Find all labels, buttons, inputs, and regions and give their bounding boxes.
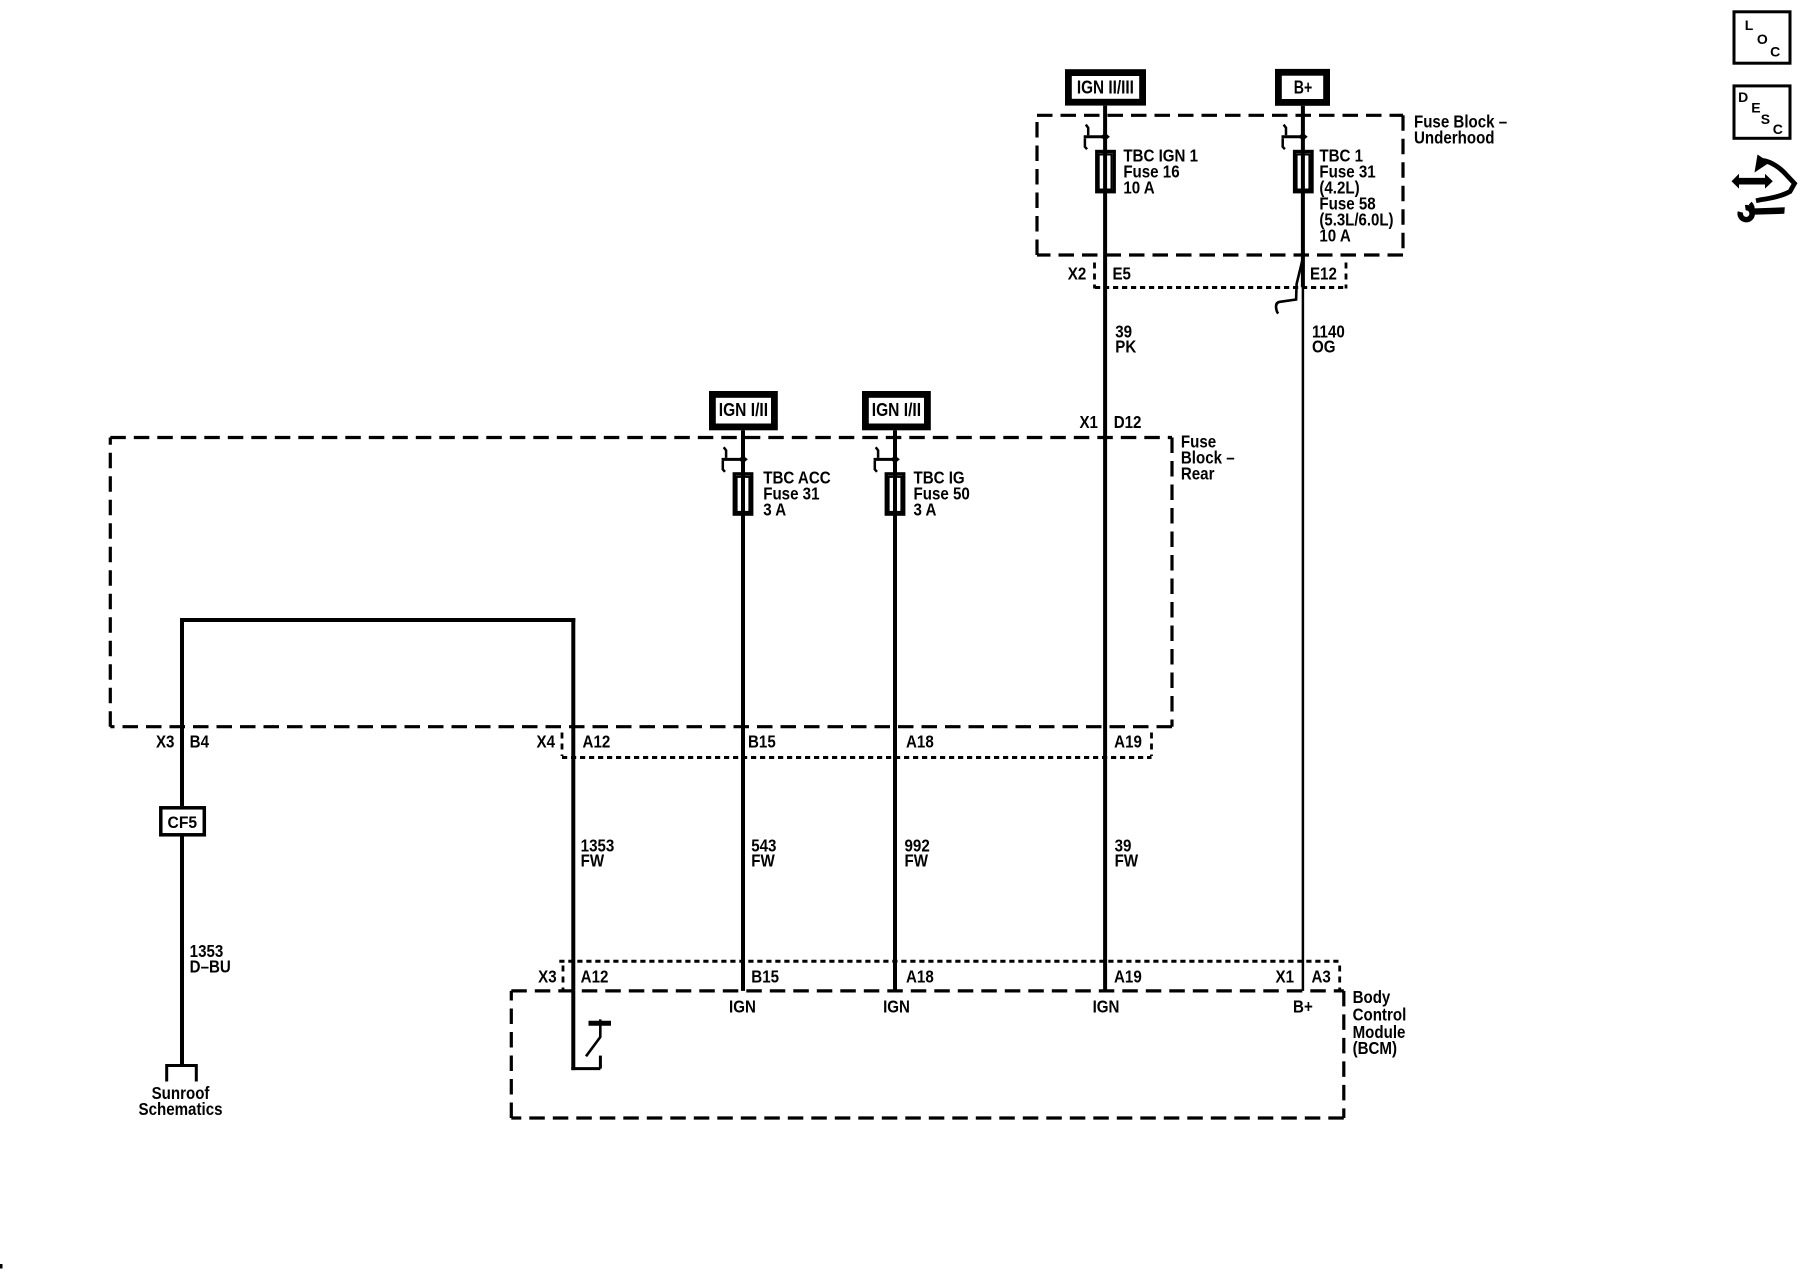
svg-text:(BCM): (BCM): [1353, 1038, 1397, 1059]
svg-text:IGN I/II: IGN I/II: [872, 400, 921, 420]
svg-text:IGN: IGN: [729, 996, 756, 1017]
svg-text:A12: A12: [583, 731, 611, 752]
svg-text:FW: FW: [581, 850, 605, 871]
svg-text:D–BU: D–BU: [190, 956, 231, 977]
svg-text:A18: A18: [906, 731, 934, 752]
svg-text:OG: OG: [1312, 336, 1336, 357]
svg-text:Rear: Rear: [1181, 463, 1215, 484]
svg-text:3 A: 3 A: [914, 499, 937, 520]
svg-text:A3: A3: [1311, 966, 1330, 987]
svg-text:B+: B+: [1293, 996, 1313, 1017]
svg-text:X3: X3: [538, 966, 556, 987]
svg-text:O: O: [1757, 31, 1768, 47]
svg-text:IGN I/II: IGN I/II: [719, 400, 768, 420]
svg-text:A12: A12: [581, 966, 609, 987]
svg-text:E5: E5: [1112, 263, 1130, 284]
svg-text:Schematics: Schematics: [139, 1099, 223, 1120]
svg-text:A18: A18: [906, 966, 934, 987]
svg-text:A19: A19: [1114, 966, 1142, 987]
svg-text:FW: FW: [1115, 850, 1139, 871]
svg-text:IGN II/III: IGN II/III: [1077, 78, 1134, 98]
svg-text:10 A: 10 A: [1123, 177, 1154, 198]
svg-text:CF5: CF5: [168, 813, 198, 832]
svg-text:S: S: [1761, 111, 1770, 127]
svg-text:B15: B15: [751, 966, 779, 987]
svg-text:B15: B15: [748, 731, 776, 752]
svg-text:E: E: [1751, 100, 1760, 116]
svg-text:FW: FW: [751, 850, 775, 871]
svg-text:C: C: [1770, 43, 1780, 59]
svg-text:X1: X1: [1276, 966, 1294, 987]
svg-text:PK: PK: [1115, 336, 1136, 357]
svg-text:X1: X1: [1079, 412, 1097, 433]
svg-text:L: L: [1745, 17, 1754, 33]
svg-text:Underhood: Underhood: [1414, 127, 1495, 148]
svg-text:B4: B4: [190, 731, 210, 752]
svg-text:E12: E12: [1310, 263, 1337, 284]
svg-text:D: D: [1738, 89, 1748, 105]
svg-text:IGN: IGN: [1093, 996, 1120, 1017]
svg-text:3 A: 3 A: [763, 499, 786, 520]
svg-text:FW: FW: [905, 850, 929, 871]
svg-text:X2: X2: [1068, 263, 1086, 284]
svg-text:B+: B+: [1294, 78, 1313, 98]
svg-text:X3: X3: [156, 731, 174, 752]
svg-text:C: C: [1773, 121, 1783, 137]
svg-text:X4: X4: [536, 731, 555, 752]
svg-text:A19: A19: [1114, 731, 1142, 752]
svg-text:D12: D12: [1114, 412, 1142, 433]
svg-text:10 A: 10 A: [1319, 225, 1350, 246]
svg-text:IGN: IGN: [883, 996, 910, 1017]
